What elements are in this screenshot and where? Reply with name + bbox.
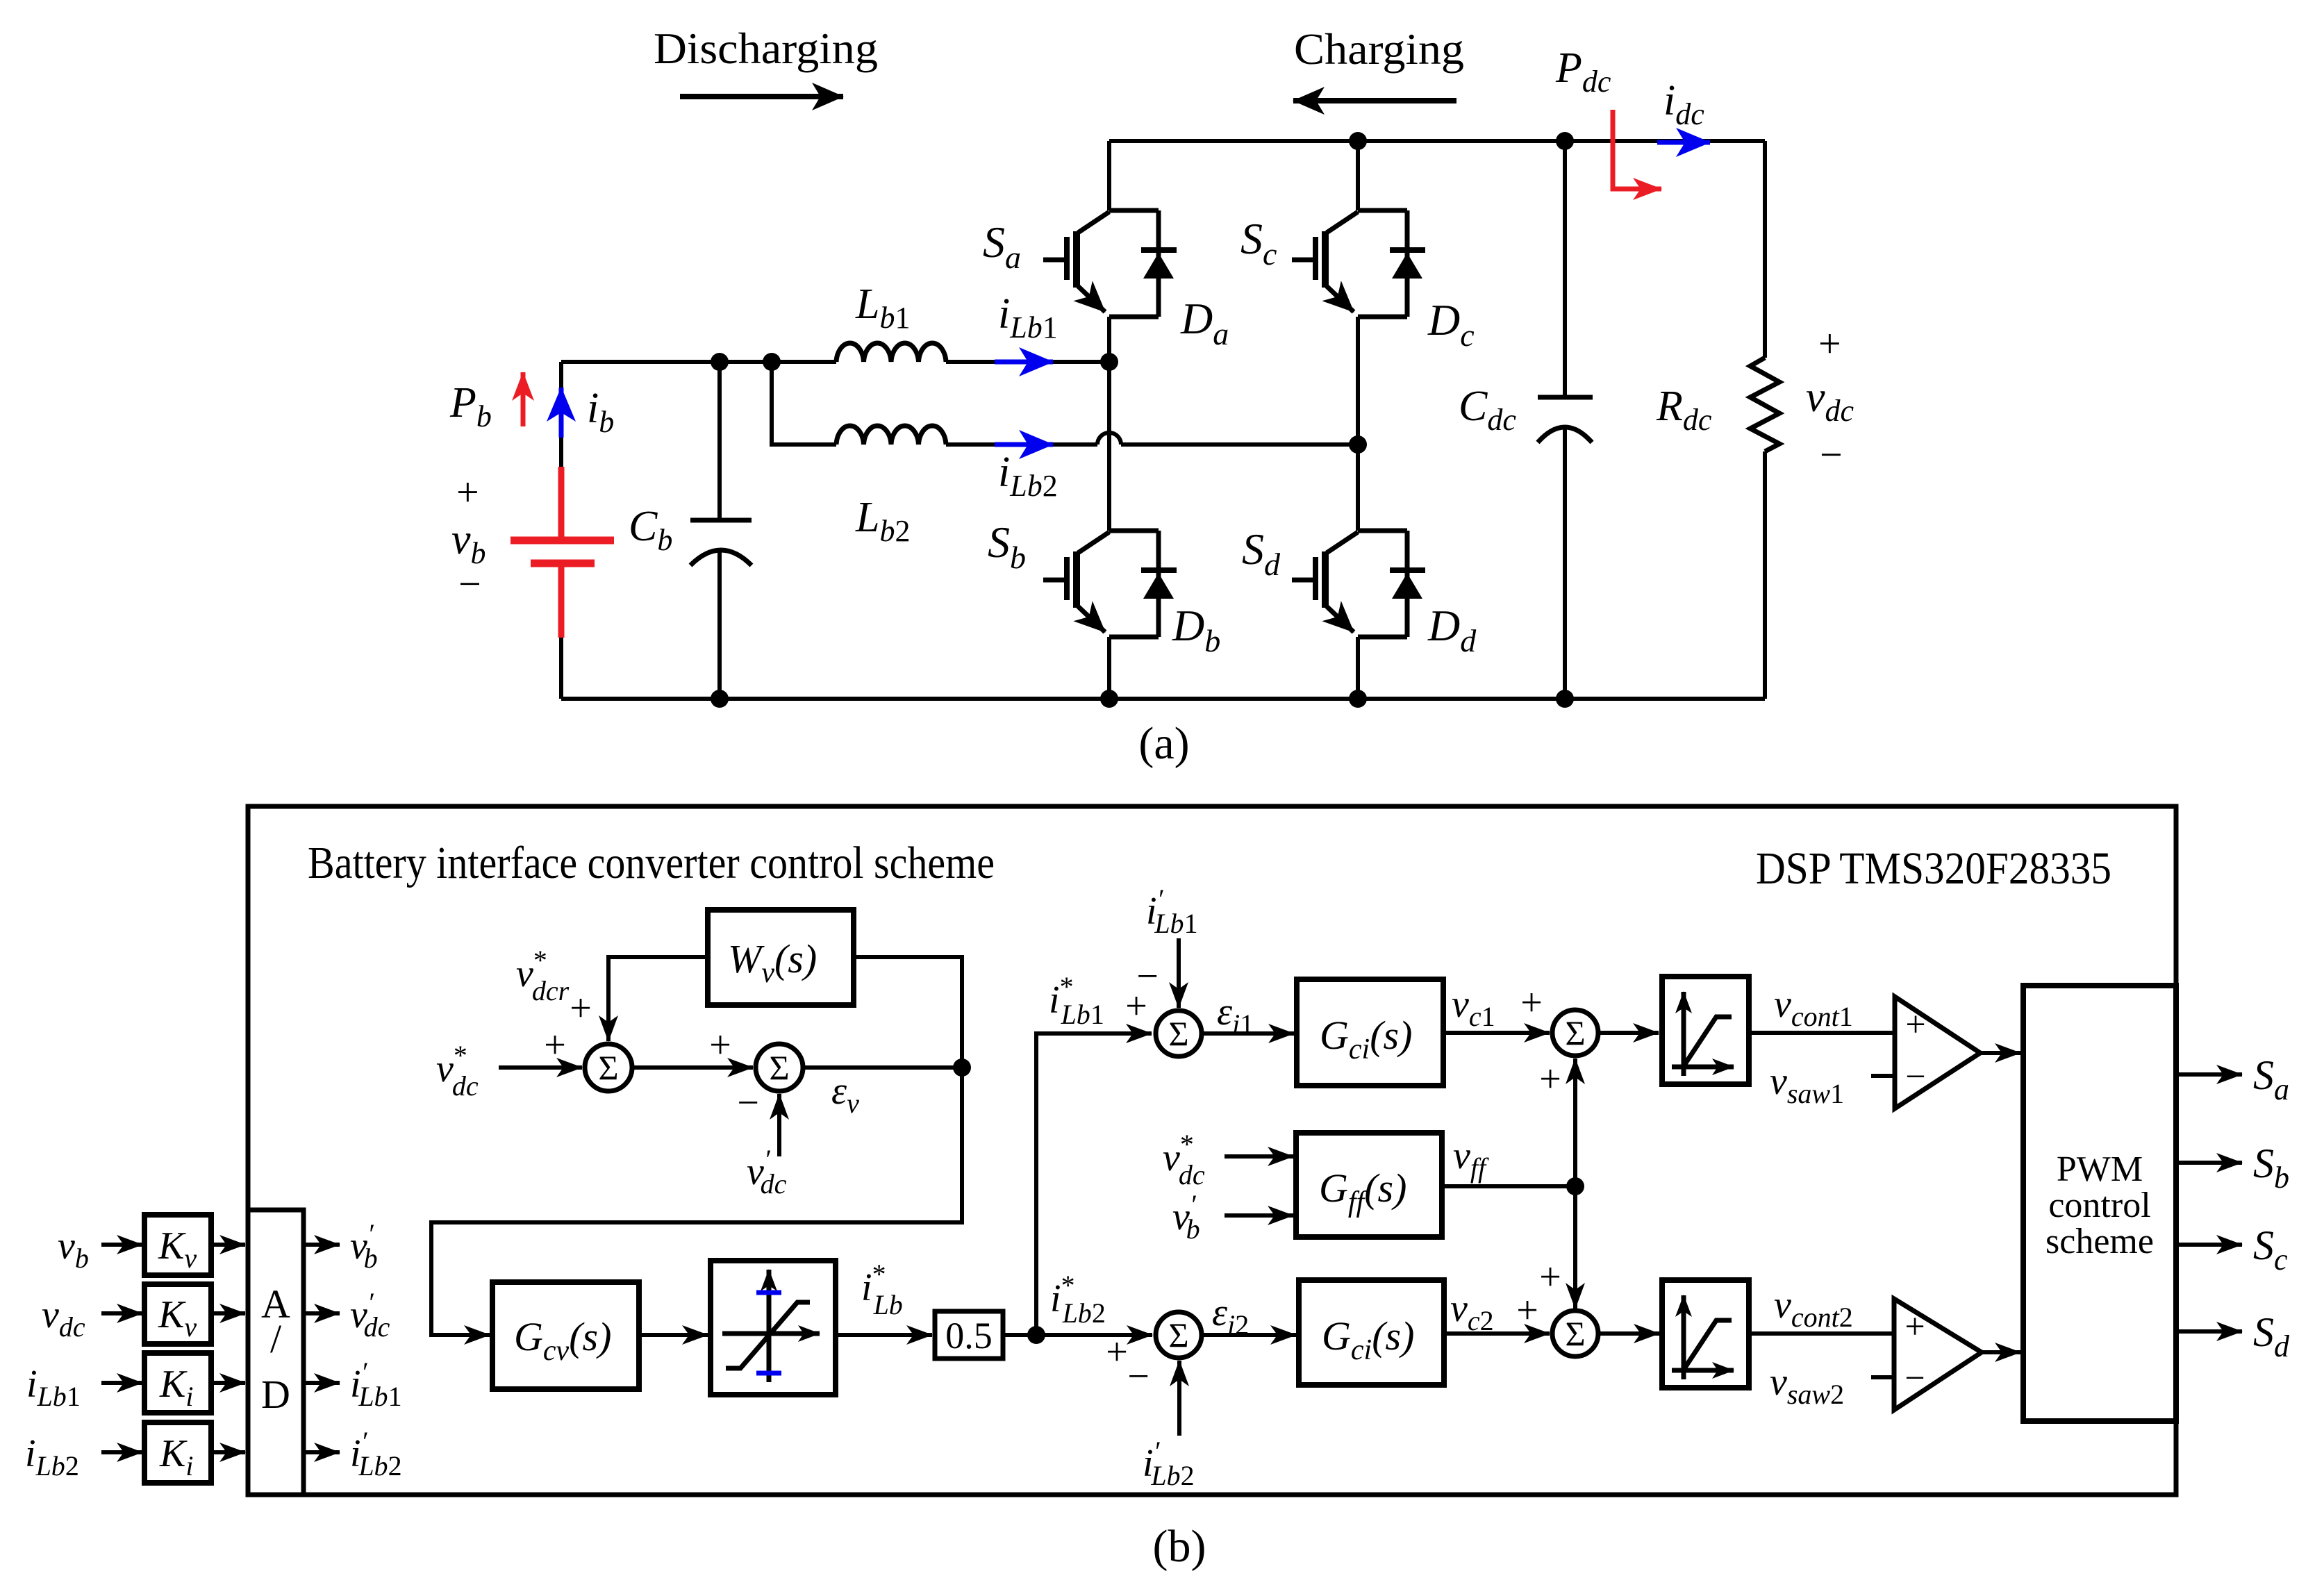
label Sa output xyxy=(2253,1052,2289,1106)
idc current arrow (blue) xyxy=(1657,140,1710,145)
svg-text:Σ: Σ xyxy=(1168,1315,1188,1354)
label iLb1* xyxy=(1049,971,1104,1030)
wire Kv to A/D xyxy=(211,1243,245,1247)
label vb' (Gff input) xyxy=(1172,1189,1200,1245)
label iLb2' xyxy=(350,1426,402,1481)
svg-text:+: + xyxy=(1905,1005,1925,1045)
svg-text:+: + xyxy=(570,987,592,1030)
node Cb bottom junction xyxy=(711,690,729,708)
summing node sum3 (ei1) xyxy=(1156,1011,1202,1056)
wire Gci2 to sum6 (vc2) xyxy=(1444,1331,1550,1336)
wire vcont1 to comparator1 xyxy=(1749,1031,1895,1035)
svg-text:PWM: PWM xyxy=(2057,1149,2143,1189)
label + (vdcr* into sum1) xyxy=(570,987,592,1030)
label Lb2 xyxy=(855,494,910,548)
wire iLb1 input arrow xyxy=(101,1381,142,1385)
wire sum6 to PWM ramp limiter lower xyxy=(1598,1331,1659,1336)
capacitor Cdc plates xyxy=(1538,395,1593,400)
iLb2 current arrow (blue) xyxy=(995,442,1053,447)
node bottom rail leg A xyxy=(1100,690,1118,708)
label - (vdc) xyxy=(1820,432,1843,477)
wire vdc* to sum1 xyxy=(499,1065,582,1070)
label vdc' (sum2 input) xyxy=(747,1144,787,1199)
capacitor Cdc top lead xyxy=(1563,141,1567,397)
label Pdc xyxy=(1555,44,1611,99)
label + (battery) xyxy=(456,470,479,515)
wire bottom rail xyxy=(561,697,1765,701)
svg-text:Σ: Σ xyxy=(1168,1014,1188,1053)
node bottom rail Cdc xyxy=(1556,690,1574,708)
node vff junction xyxy=(1566,1177,1584,1195)
summing node sum6 xyxy=(1552,1311,1598,1356)
wire vdc* into Gff xyxy=(1225,1154,1293,1159)
svg-text:Charging: Charging xyxy=(1294,24,1464,74)
node A (leg A midpoint) xyxy=(1100,353,1118,371)
label vdc xyxy=(1806,374,1854,428)
resistor Rdc xyxy=(1750,358,1779,451)
wire hop over leg A xyxy=(1097,433,1121,445)
wire ev feedback down to Gcv xyxy=(431,1068,962,1335)
node iLb branch junction xyxy=(1027,1326,1045,1344)
gain block Kv (vb) xyxy=(144,1215,211,1275)
inductor Lb1 xyxy=(836,343,946,362)
svg-text:+: + xyxy=(1106,1331,1128,1374)
wire vdc' into sum2 xyxy=(777,1094,781,1156)
wire 0.5 to sum4 (iLb2*) xyxy=(1003,1333,1152,1337)
label iLb1' (sum3 input) xyxy=(1146,883,1198,939)
wire output Sc xyxy=(2176,1243,2242,1247)
ib current arrow (blue) xyxy=(559,388,564,438)
label - (battery) xyxy=(458,561,481,606)
svg-text:+: + xyxy=(1539,1058,1561,1101)
svg-text:−: − xyxy=(1127,1355,1149,1398)
DSP outer boundary box xyxy=(248,806,2176,1495)
wire vff down into sum6 xyxy=(1573,1186,1577,1309)
wire sum2 output (ev) xyxy=(803,1065,962,1070)
label Dd xyxy=(1427,601,1477,658)
wire A/D out vdc' xyxy=(304,1311,340,1315)
gain block Ki (iLb2) xyxy=(144,1422,211,1483)
wire iLb1' into sum3 xyxy=(1177,938,1181,1008)
battery vb top lead xyxy=(559,362,563,467)
transistor Sb (IGBT) xyxy=(1043,531,1159,637)
label Sb xyxy=(988,517,1026,575)
wire output Sa xyxy=(2176,1072,2242,1077)
wire vb' into Gff xyxy=(1225,1213,1293,1218)
wire A/D out iLb2' xyxy=(304,1450,340,1454)
wire sum1 to sum2 xyxy=(632,1065,753,1070)
capacitor Cb bottom lead xyxy=(717,551,722,699)
transfer block Gci(s) lower xyxy=(1299,1280,1444,1385)
summing node sum1 xyxy=(585,1044,632,1091)
wire vcont2 to comparator2 xyxy=(1749,1331,1894,1336)
label vdc* (sum1 input) xyxy=(436,1040,479,1102)
gain block Ki (iLb1) xyxy=(144,1353,211,1413)
node top rail leg C xyxy=(1349,132,1367,150)
wire limiter to 0.5 xyxy=(836,1333,932,1337)
label vdc' xyxy=(350,1287,390,1343)
svg-text:−: − xyxy=(458,561,481,606)
wire iLb1* branch up to sum3 xyxy=(1036,1033,1152,1335)
wire hop to node C xyxy=(1121,442,1358,447)
wire Lb2 branch drop xyxy=(772,362,836,445)
wire sum5 to PWM ramp limiter upper xyxy=(1598,1031,1659,1035)
svg-text:+: + xyxy=(709,1024,731,1067)
label Pb xyxy=(449,379,492,433)
label vsaw1 xyxy=(1770,1060,1844,1109)
svg-text:scheme: scheme xyxy=(2045,1222,2154,1261)
transfer block Wv(s) xyxy=(708,910,854,1005)
diode Dd xyxy=(1390,570,1425,599)
label + (iLb1* into sum3) xyxy=(1125,985,1147,1028)
label iLb1 xyxy=(998,290,1058,344)
label + (vdc* into sum1) xyxy=(544,1024,566,1067)
wire Wv output to sum1 (vdcr*) xyxy=(608,957,708,1041)
wire iLb2 input arrow xyxy=(101,1450,142,1454)
wire battery top net (vb+ to Lb1) xyxy=(561,360,836,364)
wire A/D out vb' xyxy=(304,1243,340,1247)
wire leg C bottom segment xyxy=(1356,637,1360,699)
wire comparator1 to PWM block xyxy=(1980,1051,2020,1055)
node Lb2 branch junction xyxy=(763,353,781,371)
label vff xyxy=(1453,1134,1489,1184)
wire sum4 to Gci2 (ei2) xyxy=(1202,1333,1296,1337)
label iLb2 input xyxy=(25,1432,79,1481)
label Sc output xyxy=(2253,1222,2288,1277)
capacitor Cb plates xyxy=(690,518,752,523)
label Cb xyxy=(629,503,672,557)
svg-text:+: + xyxy=(1904,1307,1925,1347)
svg-text:Σ: Σ xyxy=(1565,1314,1585,1353)
wire Gci1 to sum5 (vc1) xyxy=(1443,1031,1550,1035)
comparator 1 xyxy=(1895,997,1980,1109)
label + (vc2 into sum6) xyxy=(1516,1289,1538,1332)
svg-text:DSP TMS320F28335: DSP TMS320F28335 xyxy=(1756,843,2111,894)
PWM ramp block lower xyxy=(1662,1280,1749,1388)
label + (sum1 out into sum2) xyxy=(709,1024,731,1067)
wire comparator2 to PWM block xyxy=(1982,1350,2020,1354)
label Sb output xyxy=(2253,1140,2289,1195)
svg-text:−: − xyxy=(737,1081,759,1124)
label Rdc xyxy=(1656,383,1712,437)
transfer block Gff(s) xyxy=(1296,1133,1442,1237)
gain block Kv (vdc) xyxy=(144,1284,211,1344)
label vb input xyxy=(58,1224,89,1274)
svg-text:(b): (b) xyxy=(1153,1521,1206,1572)
label (b) xyxy=(1153,1521,1206,1572)
label Sa xyxy=(983,217,1021,275)
label vdc input xyxy=(42,1293,85,1343)
transistor Sc (IGBT) xyxy=(1292,210,1407,317)
wire leg A collector segment xyxy=(1107,141,1111,210)
node top rail Cdc xyxy=(1556,132,1574,150)
PWM ramp block upper xyxy=(1662,977,1749,1084)
label ei2 xyxy=(1212,1291,1249,1340)
label Sd output xyxy=(2253,1309,2290,1363)
svg-text:+: + xyxy=(1818,321,1841,366)
svg-text:−: − xyxy=(1905,1057,1925,1097)
label ib xyxy=(587,385,614,439)
diode Dc xyxy=(1390,250,1425,279)
transistor Sa (IGBT) xyxy=(1043,210,1159,317)
summing node sum4 (ei2) xyxy=(1156,1312,1202,1358)
wire vff up into sum5 xyxy=(1573,1058,1577,1186)
svg-text:Σ: Σ xyxy=(1565,1013,1585,1052)
limiter block (saturation) xyxy=(711,1261,836,1395)
gain block 0.5 xyxy=(935,1311,1003,1359)
svg-text:0.5: 0.5 xyxy=(945,1315,993,1356)
transfer block Gcv(s) xyxy=(492,1282,639,1389)
label vc2 xyxy=(1450,1287,1494,1336)
battery vb bottom lead xyxy=(559,638,563,699)
wire leg A middle segment xyxy=(1107,317,1111,531)
wire ev junction up to Wv input xyxy=(854,957,962,1068)
wire top dc rail xyxy=(1109,139,1765,143)
label iLb2 xyxy=(998,449,1058,503)
label Cdc xyxy=(1459,383,1516,437)
wire Ki1 to A/D xyxy=(211,1381,245,1385)
svg-text:−: − xyxy=(1136,955,1159,998)
Pdc power arrow (red) xyxy=(1613,110,1661,189)
wire vdc input arrow xyxy=(101,1311,142,1315)
charging direction arrow xyxy=(1293,98,1456,103)
svg-text:+: + xyxy=(1516,1289,1538,1332)
wire output Sd xyxy=(2176,1329,2242,1334)
label vdc* (Gff input) xyxy=(1163,1129,1205,1190)
label ei1 xyxy=(1217,990,1254,1040)
label Dc xyxy=(1427,295,1475,353)
wire output Sb xyxy=(2176,1161,2242,1165)
A/D converter block xyxy=(248,1210,304,1495)
wire iLb2' into sum4 xyxy=(1177,1361,1181,1436)
svg-text:−: − xyxy=(1820,432,1843,477)
iLb1 current arrow (blue) xyxy=(995,360,1053,365)
label iLb2' (sum4 input) xyxy=(1143,1436,1195,1491)
label vcont2 xyxy=(1774,1284,1853,1333)
label + (iLb2* into sum4) xyxy=(1106,1331,1128,1374)
capacitor Cb top lead xyxy=(717,362,722,520)
label iLb2* xyxy=(1050,1270,1106,1329)
label ev (epsilon v) xyxy=(831,1070,859,1119)
wire vsaw1 stub to comparator1 xyxy=(1871,1074,1895,1078)
PWM control scheme block xyxy=(2023,986,2176,1421)
node bottom rail leg C xyxy=(1349,690,1367,708)
svg-text:Battery interface converter co: Battery interface converter control sche… xyxy=(308,838,995,888)
label DSP TMS320F28335 xyxy=(1756,843,2111,894)
label + (vc1 into sum5) xyxy=(1520,981,1543,1024)
transfer block Gci(s) upper xyxy=(1297,979,1443,1086)
svg-text:+: + xyxy=(456,470,479,515)
label + (vff into sum6) xyxy=(1539,1256,1561,1299)
svg-text:Discharging: Discharging xyxy=(654,24,878,73)
label - (iLb1' into sum3) xyxy=(1136,955,1159,998)
wire Gff output (vff) xyxy=(1442,1184,1575,1188)
wire leg A bottom segment xyxy=(1107,637,1111,699)
wire Rdc branch (right side) xyxy=(1763,141,1767,699)
label vc1 xyxy=(1452,983,1495,1032)
svg-text:(a): (a) xyxy=(1138,718,1189,769)
svg-text:Σ: Σ xyxy=(598,1048,618,1087)
svg-text:Σ: Σ xyxy=(769,1048,789,1087)
label Sc xyxy=(1240,214,1277,272)
transistor Sd (IGBT) xyxy=(1292,531,1407,637)
label Lb1 xyxy=(855,281,910,335)
summing node sum2 xyxy=(756,1044,803,1091)
label iLb1 input xyxy=(26,1363,81,1412)
label vb xyxy=(451,516,486,570)
comparator 2 xyxy=(1894,1299,1982,1410)
inductor Lb2 xyxy=(836,426,946,445)
label idc xyxy=(1663,77,1704,131)
label vsaw2 xyxy=(1770,1361,1844,1410)
wire Ki2 to A/D xyxy=(211,1450,245,1454)
label Charging xyxy=(1294,24,1464,74)
battery vb symbol (red) xyxy=(511,467,614,638)
label Battery interface converter control scheme xyxy=(308,838,995,888)
wire vsaw2 stub to comparator2 xyxy=(1871,1375,1894,1379)
svg-text:D: D xyxy=(261,1372,290,1417)
discharging direction arrow xyxy=(680,94,843,99)
svg-text:+: + xyxy=(544,1024,566,1067)
diode Da xyxy=(1141,250,1177,279)
diode Db xyxy=(1141,570,1177,599)
label - (iLb2' into sum4) xyxy=(1127,1355,1149,1398)
wire leg C collector segment xyxy=(1356,141,1360,210)
wire Lb1 output to node A xyxy=(946,360,1109,364)
label (a) xyxy=(1138,718,1189,769)
svg-text:+: + xyxy=(1539,1256,1561,1299)
wire vb input arrow xyxy=(101,1243,142,1247)
svg-text:/: / xyxy=(270,1316,282,1361)
node battery-Cb junction xyxy=(711,353,729,371)
svg-text:control: control xyxy=(2048,1186,2150,1225)
label Sd xyxy=(1242,524,1281,582)
label vdcr* xyxy=(516,945,570,1006)
label + (vdc) xyxy=(1818,321,1841,366)
label Da xyxy=(1180,294,1229,351)
wire A/D out iLb1' xyxy=(304,1381,340,1385)
Pb power arrow (red) xyxy=(521,372,526,426)
label vb' xyxy=(350,1218,378,1274)
wire Lb2 to hop xyxy=(946,442,1097,447)
label vcont1 xyxy=(1774,983,1853,1032)
node C (leg C midpoint) xyxy=(1349,435,1367,454)
label + (vff into sum5) xyxy=(1539,1058,1561,1101)
wire leg C middle segment xyxy=(1356,317,1360,531)
label iLb* xyxy=(861,1259,903,1320)
wire Kv2 to A/D xyxy=(211,1311,245,1315)
wire Gcv to limiter xyxy=(639,1333,708,1337)
label - (vdc' into sum2) xyxy=(737,1081,759,1124)
summing node sum5 xyxy=(1552,1010,1598,1056)
svg-text:−: − xyxy=(1904,1359,1925,1398)
label Db xyxy=(1172,601,1220,658)
wire sum3 to Gci1 (ei1) xyxy=(1202,1031,1294,1036)
label Discharging xyxy=(654,24,878,73)
svg-text:+: + xyxy=(1520,981,1543,1024)
capacitor Cdc bottom lead xyxy=(1563,428,1567,699)
node ev junction xyxy=(953,1058,971,1077)
label iLb1' xyxy=(350,1356,402,1412)
